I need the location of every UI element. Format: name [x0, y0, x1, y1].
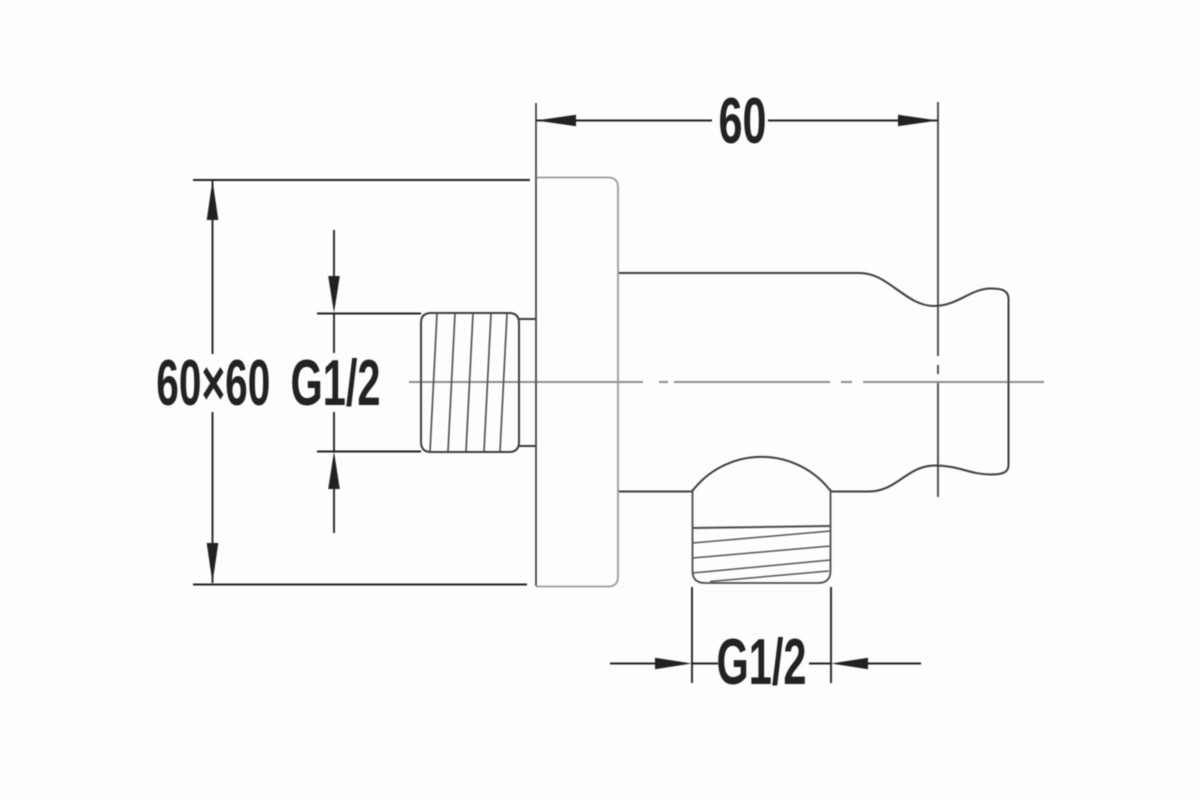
- svg-text:60×60: 60×60: [156, 346, 270, 419]
- svg-text:G1/2: G1/2: [291, 346, 381, 419]
- svg-text:60: 60: [719, 84, 767, 157]
- svg-text:G1/2: G1/2: [717, 625, 807, 698]
